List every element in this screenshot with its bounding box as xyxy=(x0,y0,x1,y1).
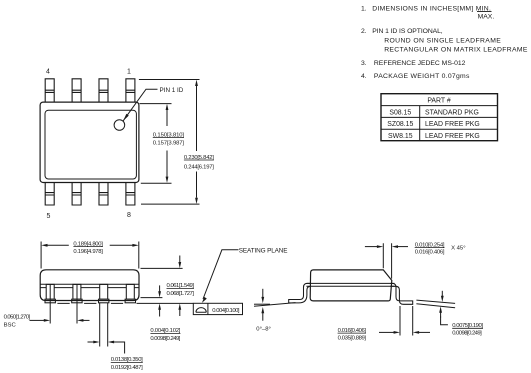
svg-text:0.0192[0.487]: 0.0192[0.487] xyxy=(111,365,143,371)
svg-text:3.: 3. xyxy=(361,60,367,67)
svg-text:REFERENCE JEDEC MS-012: REFERENCE JEDEC MS-012 xyxy=(374,60,466,67)
top pins row xyxy=(45,79,135,102)
top view outer dim arrows xyxy=(195,80,198,86)
chamfer arrows xyxy=(377,245,383,248)
svg-text:LEAD FREE PKG: LEAD FREE PKG xyxy=(425,133,480,140)
body outer outline xyxy=(40,102,139,182)
svg-text:0°–8°: 0°–8° xyxy=(256,326,271,332)
arrowheads drawn manually xyxy=(41,80,444,344)
pin 1 ID circle xyxy=(114,120,125,131)
inner dim extension lines xyxy=(140,104,172,184)
lead width arrows xyxy=(93,341,99,344)
svg-text:8: 8 xyxy=(127,212,131,219)
inner dim line w/ arrows xyxy=(166,110,168,127)
note 1 MIN underline xyxy=(477,11,492,13)
svg-text:1.: 1. xyxy=(361,5,367,12)
height dim arrows xyxy=(178,262,181,268)
svg-text:SZ08.15: SZ08.15 xyxy=(387,121,413,128)
parting lines xyxy=(306,283,394,286)
0-8 deg seating line xyxy=(254,303,270,305)
height dim: body top ext xyxy=(141,267,183,269)
svg-text:RECTANGULAR ON MATRIX LEADFRAM: RECTANGULAR ON MATRIX LEADFRAME xyxy=(384,47,528,54)
svg-text:4.: 4. xyxy=(361,73,367,80)
svg-text:0.050[1.270]: 0.050[1.270] xyxy=(4,315,31,321)
svg-text:S08.15: S08.15 xyxy=(389,109,411,116)
left gull-wing lead xyxy=(289,283,311,303)
front face line xyxy=(40,283,139,285)
dim text underlines (MIN value) xyxy=(73,138,483,363)
right gull-wing lead xyxy=(390,283,412,304)
BSC arrows xyxy=(44,319,50,322)
svg-text:MAX.: MAX. xyxy=(478,13,495,20)
datum dome symbol xyxy=(196,308,206,313)
seating plane leader arrow xyxy=(202,297,207,303)
front top dim arrows xyxy=(41,244,47,247)
foot length dim arrows xyxy=(379,331,394,333)
datum feature box xyxy=(193,303,242,314)
svg-text:0.157[3.987]: 0.157[3.987] xyxy=(153,140,185,146)
leads xyxy=(45,284,136,302)
svg-text:1: 1 xyxy=(127,69,131,76)
svg-text:0.0098[0.249]: 0.0098[0.249] xyxy=(150,336,180,342)
seating plane dashes between feet xyxy=(57,302,123,304)
foot slant extension lines xyxy=(416,300,455,308)
svg-text:STANDARD PKG: STANDARD PKG xyxy=(425,109,479,116)
0-8 deg arrows xyxy=(262,289,264,298)
outer dim extension lines xyxy=(139,80,200,205)
height arrows at x=179.8 xyxy=(179,256,181,264)
top view inner dim arrows xyxy=(166,104,169,110)
svg-text:5: 5 xyxy=(47,213,51,220)
pin 1 ID leader xyxy=(123,89,157,121)
svg-text:0.068[1.727]: 0.068[1.727] xyxy=(167,291,195,297)
svg-text:0.0098[0.249]: 0.0098[0.249] xyxy=(452,331,482,337)
BSC pitch ext lines xyxy=(50,285,77,324)
svg-text:0.196[4.978]: 0.196[4.978] xyxy=(73,249,103,255)
svg-text:PIN 1 ID: PIN 1 ID xyxy=(160,87,184,94)
0-8 arrows xyxy=(261,297,264,303)
svg-text:SEATING PLANE: SEATING PLANE xyxy=(239,247,288,254)
foot length arrows xyxy=(394,331,400,334)
svg-text:0.016[0.406]: 0.016[0.406] xyxy=(415,249,445,255)
top dim ext lines xyxy=(41,242,139,269)
chamfer ext lines xyxy=(383,243,391,278)
svg-text:X 45°: X 45° xyxy=(451,246,465,252)
svg-text:BSC: BSC xyxy=(4,322,17,328)
0-8 deg slant line xyxy=(254,303,296,307)
thickness arrows xyxy=(441,296,444,302)
svg-text:4: 4 xyxy=(46,69,50,76)
foot length ext lines xyxy=(400,306,413,336)
svg-text:0.004[0.100]: 0.004[0.100] xyxy=(212,308,240,314)
body inner (top face) outline xyxy=(45,110,136,179)
chamfer dim arrows xyxy=(365,246,378,248)
svg-text:PACKAGE WEIGHT 0.07gms: PACKAGE WEIGHT 0.07gms xyxy=(374,73,470,80)
svg-text:DIMENSIONS IN INCHES[MM] MIN.: DIMENSIONS IN INCHES[MM] MIN. xyxy=(372,5,491,12)
svg-text:PART #: PART # xyxy=(427,98,451,105)
pin1 leader arrowhead xyxy=(123,114,129,121)
outer dim line w/ arrows xyxy=(196,86,198,151)
svg-text:PIN 1 ID IS OPTIONAL,: PIN 1 ID IS OPTIONAL, xyxy=(372,28,443,35)
lead width dim arrows + leader xyxy=(88,341,95,343)
lead width ext lines xyxy=(100,303,108,347)
svg-text:LEAD FREE PKG: LEAD FREE PKG xyxy=(425,121,480,128)
bottom pins row xyxy=(45,183,135,205)
height dim: body bottom ext xyxy=(141,297,163,299)
body loaf outline xyxy=(40,270,139,301)
svg-text:SW8.15: SW8.15 xyxy=(388,133,413,140)
svg-text:0.244[6.197]: 0.244[6.197] xyxy=(184,164,214,170)
end view body xyxy=(310,270,392,301)
svg-text:ROUND ON SINGLE LEADFRAME: ROUND ON SINGLE LEADFRAME xyxy=(384,37,501,44)
seating plane line to datum box xyxy=(137,302,194,304)
BSC dim arrows xyxy=(30,319,45,321)
svg-text:0.035[0.889]: 0.035[0.889] xyxy=(338,336,367,342)
standoff arrows xyxy=(158,291,161,297)
svg-text:2.: 2. xyxy=(361,28,367,35)
front face line 2 (hidden behind leads) xyxy=(40,287,139,289)
thickness leader tail xyxy=(441,317,448,325)
standoff arrows at x=159.6 xyxy=(159,285,161,292)
thickness arrows xyxy=(441,291,443,297)
seating plane leader xyxy=(203,250,239,299)
top dim line segments xyxy=(47,244,133,246)
